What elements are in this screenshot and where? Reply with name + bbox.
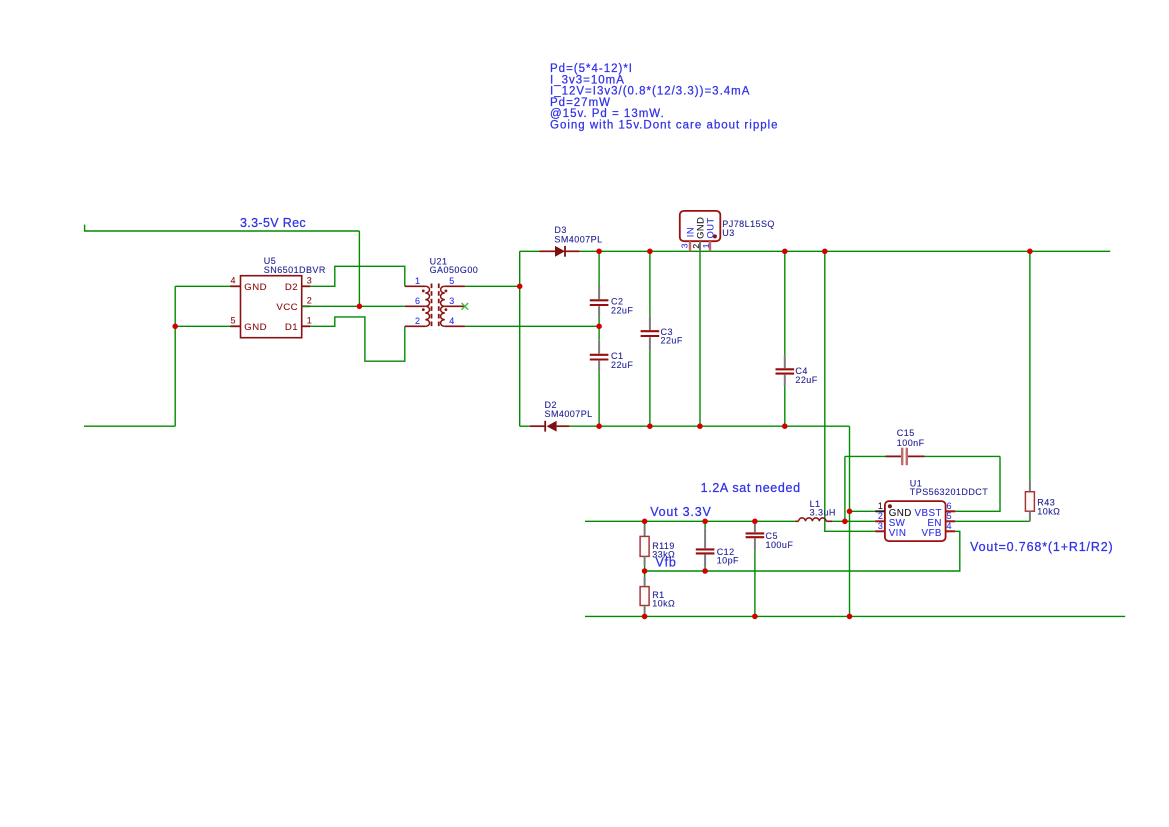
svg-text:4: 4: [231, 276, 236, 286]
D2 refdes: [545, 400, 557, 410]
svg-text:1: 1: [701, 243, 711, 248]
R119 value 33kOhm: [652, 550, 675, 560]
wire Vout rail: [585, 520, 796, 522]
wire VIN vertical: [825, 251, 876, 531]
R43 refdes: [1037, 498, 1055, 508]
capacitor C1: [590, 326, 609, 426]
U1 pin numbers: [878, 501, 952, 531]
junction bottom rail U3gnd: [697, 423, 703, 429]
junction C2C1 mid: [596, 324, 602, 330]
junction pin5 rail: [517, 284, 523, 290]
resistor R43: [1025, 251, 1034, 521]
svg-text:C15: C15: [897, 428, 915, 438]
U3 value PJ78L15SQ: [722, 219, 775, 229]
svg-text:GND: GND: [244, 322, 267, 333]
svg-text:10kΩ: 10kΩ: [1037, 506, 1060, 516]
regulator U3 body: [680, 211, 721, 251]
R1 value 10kOhm: [652, 599, 675, 609]
svg-text:VFB: VFB: [921, 528, 941, 539]
C4 value 22uF: [795, 375, 817, 385]
svg-text:VCC: VCC: [276, 302, 298, 313]
wire XFMR pin4 to C2C1: [465, 325, 599, 327]
note Vout formula: [970, 540, 1113, 554]
svg-text:33kΩ: 33kΩ: [652, 550, 675, 560]
net label Vout 3.3V: [650, 505, 711, 519]
C5 refdes: [766, 531, 778, 541]
U21 value GA050G00: [430, 265, 479, 275]
svg-text:D1: D1: [285, 322, 298, 333]
svg-text:I_3v3=10mA: I_3v3=10mA: [550, 74, 625, 86]
svg-text:SM4007PL: SM4007PL: [545, 409, 593, 419]
diode D2: [520, 421, 570, 432]
junction top rail VIN: [822, 249, 828, 255]
C15 value 100nF: [897, 438, 925, 448]
wire U5 pin5: [175, 325, 230, 327]
svg-text:U3: U3: [722, 228, 734, 238]
svg-text:4: 4: [947, 521, 952, 531]
svg-text:10kΩ: 10kΩ: [652, 599, 675, 609]
svg-text:SN6501DBVR: SN6501DBVR: [264, 265, 326, 275]
no-connect X pin3: [462, 303, 469, 310]
svg-text:5: 5: [231, 316, 236, 326]
L1 value 3.3uH: [810, 508, 836, 518]
U21 refdes: [430, 256, 448, 266]
C3 refdes: [661, 327, 673, 337]
svg-text:6: 6: [947, 501, 952, 511]
R43 value 10kOhm: [1037, 506, 1060, 516]
svg-text:Pd=27mW: Pd=27mW: [550, 97, 611, 109]
junction C15 SW: [842, 519, 848, 525]
wire bottom rail: [569, 425, 849, 427]
svg-text:2: 2: [878, 511, 883, 521]
U3 pin numbers: [679, 243, 711, 249]
svg-text:6: 6: [415, 296, 420, 306]
svg-text:1.2A sat needed: 1.2A sat needed: [701, 481, 801, 495]
junction bottom rail C4: [782, 423, 788, 429]
svg-text:100nF: 100nF: [897, 438, 925, 448]
svg-text:D2: D2: [285, 282, 298, 293]
junction VCC: [357, 304, 363, 310]
wire GND to U1: [850, 510, 876, 512]
junction Vout R119: [642, 519, 648, 525]
svg-text:1: 1: [415, 276, 420, 286]
C1 value 22uF: [611, 360, 633, 370]
capacitor C2: [590, 251, 609, 326]
capacitor C4: [776, 251, 795, 426]
wire GND vertical: [849, 426, 851, 616]
junction GND pin: [847, 509, 853, 515]
U3 refdes: [722, 228, 734, 238]
svg-text:VIN: VIN: [889, 528, 907, 539]
U21 pin numbers: [415, 276, 455, 326]
C2 value 22uF: [611, 306, 633, 316]
U5 pin names: [244, 282, 298, 333]
junction top rail C3: [647, 249, 653, 255]
svg-text:10pF: 10pF: [717, 556, 739, 566]
junction Vout C5: [752, 519, 758, 525]
U1 refdes: [910, 478, 922, 488]
U5 refdes: [264, 256, 276, 266]
svg-text:1: 1: [878, 501, 883, 511]
wire XFMR pin5 to rail: [465, 285, 520, 287]
R1 refdes: [652, 590, 664, 600]
capacitor C5: [746, 521, 765, 616]
wire EN to R43: [955, 520, 1030, 522]
svg-text:3: 3: [449, 296, 454, 306]
junction rail2 C5: [752, 614, 758, 620]
D3 refdes: [554, 225, 566, 235]
resistor R119: [640, 521, 649, 571]
svg-text:2: 2: [415, 316, 420, 326]
wire top rail: [580, 250, 1110, 252]
wire left vertical rail: [519, 251, 521, 426]
svg-text:@15v. Pd = 13mW.: @15v. Pd = 13mW.: [550, 108, 665, 120]
svg-text:3.3-5V Rec: 3.3-5V Rec: [240, 216, 306, 230]
resistor R1: [640, 571, 649, 616]
net label Vfb: [656, 555, 677, 569]
wire U5 GND vertical: [174, 286, 176, 426]
U5 pin numbers: [231, 276, 313, 326]
wire 3.3-5V Rec horizontal: [84, 230, 359, 232]
junction rail2 R1: [642, 614, 648, 620]
wire bottom-left horizontal: [84, 425, 175, 427]
junction VFB C12: [702, 568, 708, 574]
svg-text:1: 1: [307, 316, 312, 326]
U1 value TPS563201DDCT: [910, 487, 988, 497]
junction rail2 GND: [847, 614, 853, 620]
svg-text:2: 2: [691, 243, 701, 248]
wire VCC: [302, 305, 405, 307]
diode D3: [520, 246, 580, 257]
wire U5 pin4: [175, 285, 230, 287]
R119 refdes: [652, 541, 675, 551]
svg-text:22uF: 22uF: [795, 375, 817, 385]
svg-text:3.3uH: 3.3uH: [810, 508, 836, 518]
svg-text:5: 5: [449, 276, 454, 286]
svg-text:100uF: 100uF: [766, 540, 794, 550]
svg-text:Going with 15v.Dont care about: Going with 15v.Dont care about ripple: [550, 120, 779, 132]
wire C15 right to VBST: [955, 456, 1000, 511]
svg-text:4: 4: [449, 316, 454, 326]
wire bottom rail 2: [585, 615, 1125, 617]
junction top rail R43: [1027, 249, 1033, 255]
junction U5 pin5: [172, 324, 178, 330]
svg-text:5: 5: [947, 511, 952, 521]
wire 3.3-5V to VCC vertical: [358, 231, 360, 306]
junction Vout C12: [702, 519, 708, 525]
svg-text:TPS563201DDCT: TPS563201DDCT: [910, 487, 988, 497]
buck converter U1 body: [875, 501, 955, 541]
wire VFB: [645, 531, 960, 571]
svg-text:I_12V=I3v3/(0.8*(12/3.3))=3.4m: I_12V=I3v3/(0.8*(12/3.3))=3.4mA: [550, 86, 750, 98]
capacitor C12: [696, 521, 715, 571]
wire U5 D1 to XFMR pin2: [310, 317, 404, 361]
svg-text:2: 2: [307, 296, 312, 306]
C12 value 10pF: [717, 556, 739, 566]
L1 refdes: [810, 499, 821, 509]
wire 3.3-5V Rec tick: [84, 225, 86, 231]
svg-text:GA050G00: GA050G00: [430, 265, 479, 275]
junction bottom rail C1: [596, 423, 602, 429]
svg-text:3: 3: [307, 276, 312, 286]
C4 refdes: [795, 366, 807, 376]
wire L1 to SW: [832, 520, 876, 522]
wire C15 left vertical: [844, 456, 846, 521]
C1 refdes: [611, 351, 623, 361]
svg-text:22uF: 22uF: [611, 360, 633, 370]
C12 refdes: [717, 547, 735, 557]
op-amp U5 body: [230, 276, 310, 338]
junction top rail C2: [596, 249, 602, 255]
svg-text:3: 3: [679, 243, 689, 248]
capacitor C15: [845, 448, 1000, 466]
wire U5 D2 to XFMR pin1: [310, 266, 404, 286]
capacitor C3: [641, 251, 660, 426]
D3 value SM4007PL: [554, 235, 602, 245]
U3 pin names: [685, 217, 716, 239]
C15 refdes: [897, 428, 915, 438]
svg-text:SM4007PL: SM4007PL: [554, 235, 602, 245]
inductor L1: [796, 518, 833, 521]
transformer U21: [405, 284, 465, 330]
U1 pin names: [889, 508, 942, 539]
U5 value SN6501DBVR: [264, 265, 326, 275]
svg-text:GND: GND: [244, 282, 267, 293]
C3 value 22uF: [661, 336, 683, 346]
note text block: [550, 63, 779, 132]
wire U3 GND down: [699, 251, 701, 426]
junction top rail U3out: [782, 249, 788, 255]
svg-text:3: 3: [878, 521, 883, 531]
svg-text:Pd=(5*4-12)*I: Pd=(5*4-12)*I: [550, 63, 633, 75]
svg-text:Vout=0.768*(1+R1/R2): Vout=0.768*(1+R1/R2): [970, 540, 1113, 554]
D2 value SM4007PL: [545, 409, 593, 419]
junction bottom rail C3: [647, 423, 653, 429]
svg-text:Vout 3.3V: Vout 3.3V: [650, 505, 711, 519]
svg-text:22uF: 22uF: [611, 306, 633, 316]
svg-text:22uF: 22uF: [661, 336, 683, 346]
C5 value 100uF: [766, 540, 794, 550]
net label 1.2A sat needed: [701, 481, 801, 495]
net label 3.3-5V Rec: [240, 216, 306, 230]
svg-text:D3: D3: [554, 225, 566, 235]
svg-text:OUT: OUT: [705, 217, 716, 238]
junction VFB R119: [642, 568, 648, 574]
C2 refdes: [611, 297, 623, 307]
